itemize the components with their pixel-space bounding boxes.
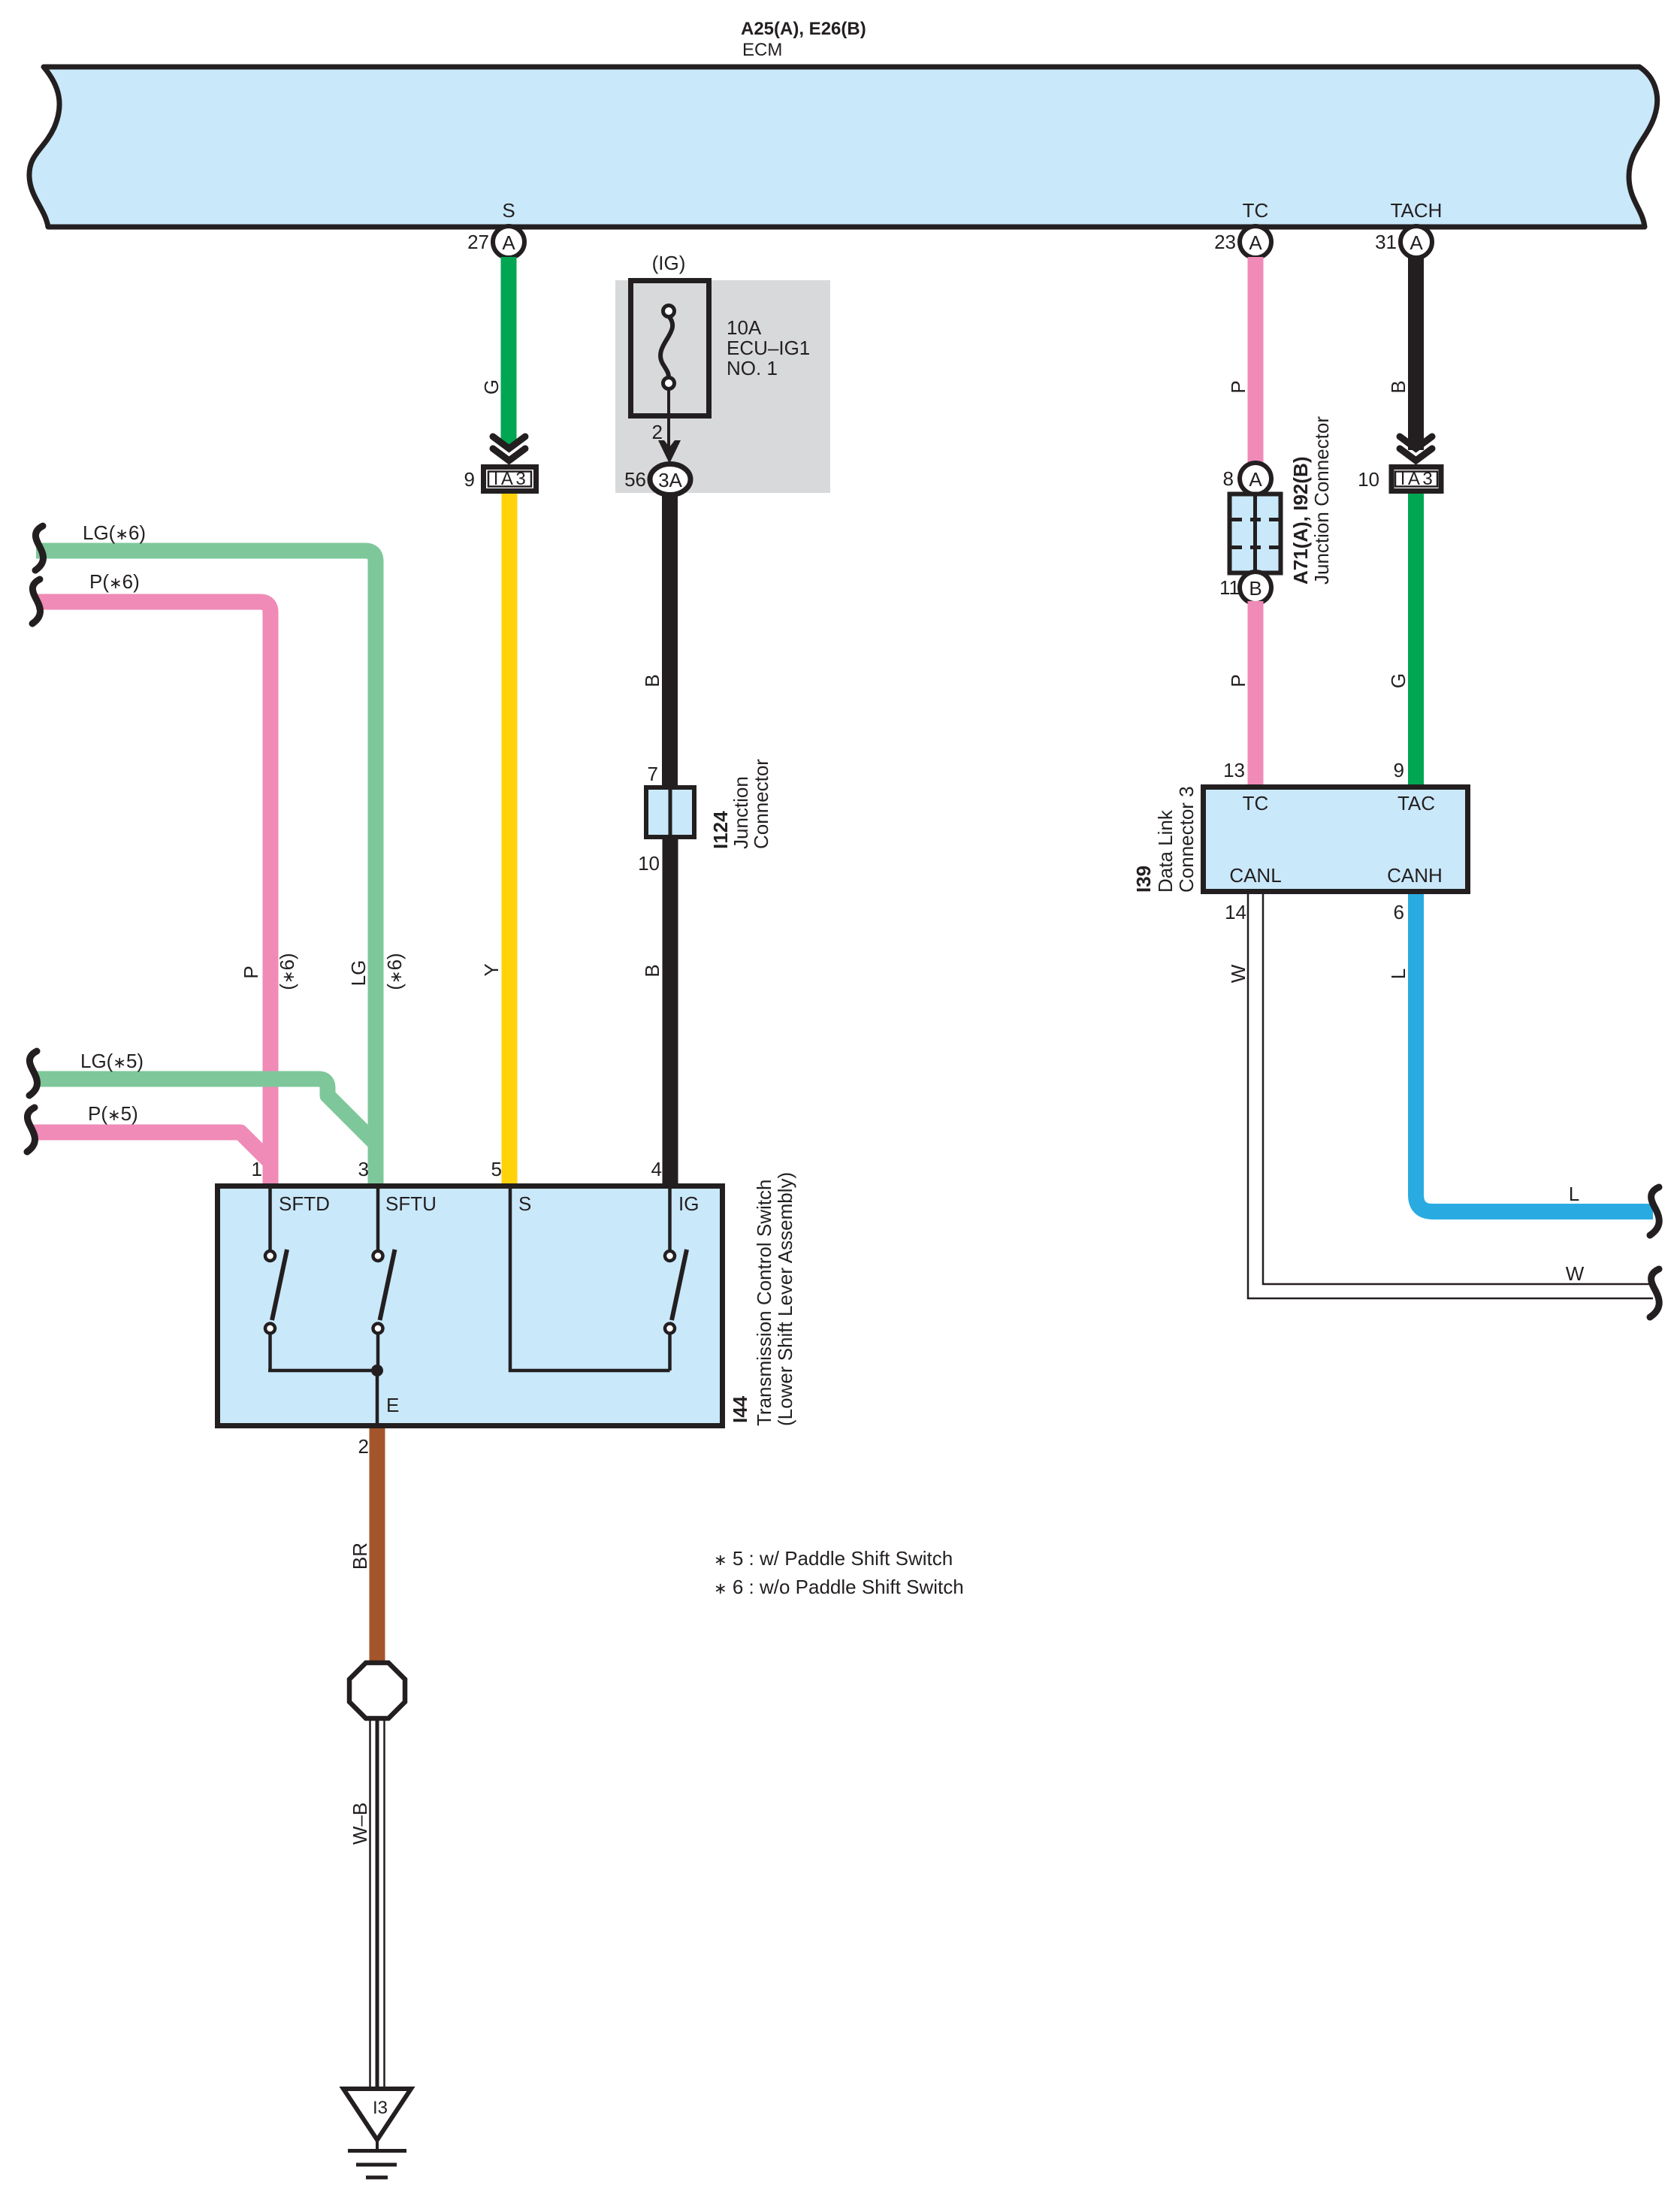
tilde end of L wire xyxy=(1650,1187,1659,1235)
ground I3 triangle xyxy=(343,2089,411,2140)
svg-text:14: 14 xyxy=(1225,901,1246,923)
svg-text:Junction: Junction xyxy=(730,776,752,849)
switch SFTU xyxy=(376,1189,380,1251)
svg-text:A71(A), I92(B): A71(A), I92(B) xyxy=(1289,457,1312,585)
svg-text:Data Link: Data Link xyxy=(1154,809,1177,893)
fuse box 10A ECU-IG1 NO.1 xyxy=(631,281,709,416)
wire LG(*6) light green xyxy=(36,551,376,1186)
svg-text:CANL: CANL xyxy=(1229,864,1281,887)
svg-text:NO. 1: NO. 1 xyxy=(727,357,778,379)
junction connector I124 xyxy=(646,787,694,837)
svg-text:L: L xyxy=(1387,969,1410,979)
wire W-B xyxy=(369,1721,371,2088)
svg-text:∗ 6 : w/o Paddle Shift Switch: ∗ 6 : w/o Paddle Shift Switch xyxy=(714,1576,964,1598)
svg-text:(Lower Shift Lever Assembly): (Lower Shift Lever Assembly) xyxy=(774,1172,796,1426)
svg-text:3: 3 xyxy=(358,1158,369,1180)
svg-text:(IG): (IG) xyxy=(652,252,686,274)
double chevron arrow into IA3 xyxy=(493,437,525,461)
switch IG xyxy=(668,1189,672,1251)
connector circle 31(A) xyxy=(1401,226,1432,258)
connector IA3 (left) xyxy=(484,467,536,491)
svg-text:3A: 3A xyxy=(658,469,682,491)
wire G green from ECM 27 xyxy=(501,257,517,446)
svg-text:ECM: ECM xyxy=(742,40,782,60)
connector circle 27(A) xyxy=(493,226,524,258)
svg-text:Transmission Control Switch: Transmission Control Switch xyxy=(753,1180,775,1426)
svg-text:8: 8 xyxy=(1223,467,1234,490)
svg-text:W: W xyxy=(1566,1262,1585,1285)
wire W white double line xyxy=(1248,894,1653,1298)
svg-text:5: 5 xyxy=(491,1158,502,1180)
svg-text:13: 13 xyxy=(1223,759,1245,781)
svg-text:G: G xyxy=(1387,673,1410,688)
svg-text:10A: 10A xyxy=(727,316,762,339)
svg-text:A: A xyxy=(1249,468,1262,491)
wire BR brown xyxy=(370,1428,385,1665)
svg-text:11: 11 xyxy=(1219,576,1240,599)
svg-text:TACH: TACH xyxy=(1391,199,1443,222)
wire G green to DLC3 xyxy=(1408,494,1424,787)
data link connector 3 I39 box xyxy=(1204,787,1468,892)
svg-text:S: S xyxy=(518,1192,531,1215)
brace P(*6) xyxy=(32,579,41,624)
svg-text:Y: Y xyxy=(480,963,503,976)
wire Y yellow to switch pin 5 xyxy=(502,494,518,1186)
svg-text:B: B xyxy=(1387,380,1410,393)
svg-text:6: 6 xyxy=(1394,901,1404,923)
fuse background panel xyxy=(615,280,830,493)
svg-text:P: P xyxy=(240,966,262,978)
svg-text:B: B xyxy=(1249,577,1262,600)
svg-text:P: P xyxy=(1227,674,1249,687)
svg-text:E: E xyxy=(386,1394,399,1416)
svg-text:9: 9 xyxy=(464,468,475,491)
svg-text:LG(∗5): LG(∗5) xyxy=(80,1050,144,1072)
connector circle 8(A) xyxy=(1240,463,1271,494)
svg-text:A25(A), E26(B): A25(A), E26(B) xyxy=(741,19,866,39)
svg-text:TC: TC xyxy=(1243,792,1269,814)
wire LG(*5) light green xyxy=(35,1079,376,1144)
svg-text:BR: BR xyxy=(349,1543,371,1570)
wire SFTD to E bus xyxy=(268,1369,377,1373)
svg-text:∗ 5 : w/ Paddle Shift Switch: ∗ 5 : w/ Paddle Shift Switch xyxy=(714,1547,953,1570)
switch SFTD xyxy=(268,1189,272,1251)
svg-text:I39: I39 xyxy=(1132,866,1155,893)
svg-text:A: A xyxy=(1410,231,1423,254)
wire B black from 3A to I124 xyxy=(662,495,678,787)
svg-text:A: A xyxy=(502,231,515,254)
svg-text:P(∗6): P(∗6) xyxy=(89,570,140,593)
svg-text:CANH: CANH xyxy=(1387,864,1443,887)
svg-text:TAC: TAC xyxy=(1397,792,1435,814)
splice octagon xyxy=(349,1663,405,1718)
svg-text:IA3: IA3 xyxy=(494,469,529,489)
svg-text:Connector 3: Connector 3 xyxy=(1175,786,1198,893)
svg-text:G: G xyxy=(480,379,503,394)
svg-text:7: 7 xyxy=(648,763,658,785)
double chevron arrow into IA3 right xyxy=(1400,437,1432,461)
connector circle 11(B) xyxy=(1240,572,1271,603)
svg-text:(∗6): (∗6) xyxy=(276,953,298,990)
connector circle 23(A) xyxy=(1240,226,1271,258)
connector oval 3A xyxy=(650,464,690,495)
svg-text:P(∗5): P(∗5) xyxy=(88,1102,138,1125)
svg-text:2: 2 xyxy=(358,1435,369,1458)
svg-text:56: 56 xyxy=(624,468,646,491)
wire P pink to DLC3 xyxy=(1248,601,1264,787)
svg-text:10: 10 xyxy=(1358,468,1379,491)
svg-text:Connector: Connector xyxy=(750,759,772,849)
svg-text:2: 2 xyxy=(652,421,663,443)
svg-text:ECU–IG1: ECU–IG1 xyxy=(727,337,810,359)
svg-text:B: B xyxy=(641,964,663,977)
svg-text:9: 9 xyxy=(1394,759,1404,781)
switch S wire xyxy=(510,1189,670,1370)
svg-text:I124: I124 xyxy=(709,811,732,849)
brace LG(*6) xyxy=(35,526,44,570)
wire L blue xyxy=(1416,894,1654,1212)
wire B black from ECM 31 xyxy=(1408,257,1424,450)
svg-text:A: A xyxy=(1249,231,1262,254)
svg-text:LG(∗6): LG(∗6) xyxy=(83,521,146,544)
svg-text:4: 4 xyxy=(651,1158,662,1180)
svg-text:31: 31 xyxy=(1375,231,1397,253)
svg-text:LG: LG xyxy=(347,960,370,987)
svg-text:W–B: W–B xyxy=(349,1803,371,1845)
svg-text:IA3: IA3 xyxy=(1401,469,1436,489)
svg-text:W: W xyxy=(1227,964,1249,983)
brace P(*5) xyxy=(27,1108,35,1152)
svg-text:TC: TC xyxy=(1243,199,1269,222)
junction dot xyxy=(371,1364,383,1377)
wire P(*5) pink xyxy=(33,1132,270,1162)
svg-text:S: S xyxy=(502,199,515,222)
arrow into 3A xyxy=(658,440,681,464)
svg-text:Junction Connector: Junction Connector xyxy=(1310,416,1333,585)
svg-text:(∗6): (∗6) xyxy=(383,953,406,990)
svg-text:27: 27 xyxy=(467,231,489,253)
brace LG(*5) xyxy=(29,1051,38,1095)
wire B black from I124 to switch pin 4 xyxy=(663,839,678,1186)
ground symbol xyxy=(376,2140,379,2150)
svg-text:I44: I44 xyxy=(729,1395,751,1423)
svg-text:23: 23 xyxy=(1214,231,1236,253)
svg-text:L: L xyxy=(1569,1183,1579,1205)
svg-text:B: B xyxy=(641,674,663,687)
svg-text:SFTD: SFTD xyxy=(279,1192,330,1215)
svg-text:10: 10 xyxy=(638,852,660,875)
svg-text:P: P xyxy=(1227,380,1249,393)
svg-text:1: 1 xyxy=(252,1158,262,1180)
ECM block A25(A), E26(B) xyxy=(29,67,1657,227)
svg-text:I3: I3 xyxy=(373,2098,388,2118)
fuse element xyxy=(660,316,672,378)
tilde end of W wire xyxy=(1650,1269,1659,1317)
svg-text:IG: IG xyxy=(678,1192,699,1215)
wire P pink from ECM 23 xyxy=(1248,257,1264,466)
connector IA3 (right) xyxy=(1391,467,1441,491)
transmission control switch I44 box xyxy=(218,1186,723,1426)
wire from fuse xyxy=(667,388,670,448)
junction connector A71(A) I92(B) xyxy=(1230,494,1281,573)
wire E down xyxy=(376,1370,379,1426)
svg-text:SFTU: SFTU xyxy=(385,1192,437,1215)
wire P(*6) pink xyxy=(36,602,270,1186)
